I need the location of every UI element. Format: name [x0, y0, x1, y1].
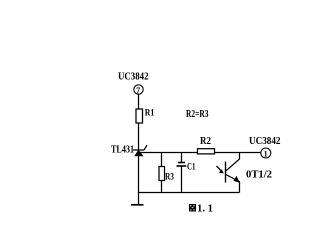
svg-text:R2: R2 [200, 136, 211, 147]
svg-text:0T1/2: 0T1/2 [246, 169, 272, 180]
svg-text:TL431: TL431 [111, 144, 134, 155]
svg-text:7: 7 [136, 86, 140, 95]
svg-text:R3: R3 [165, 173, 174, 183]
svg-text:1. 1: 1. 1 [197, 203, 213, 214]
svg-text:R2=R3: R2=R3 [186, 109, 209, 120]
svg-text:UC3842: UC3842 [118, 71, 149, 83]
svg-text:UC3842: UC3842 [249, 135, 281, 147]
svg-text:C1: C1 [187, 163, 196, 173]
svg-text:1: 1 [264, 149, 268, 158]
svg-text:R1: R1 [145, 109, 155, 119]
